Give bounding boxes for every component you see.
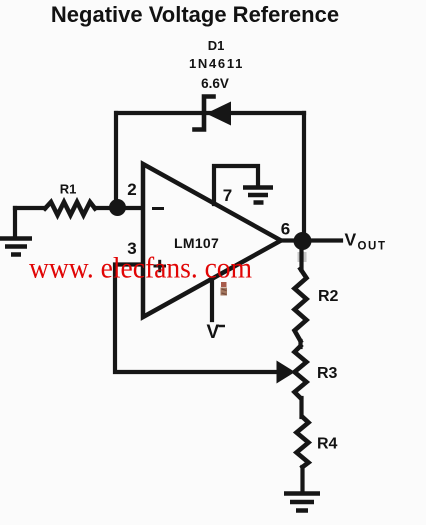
svg-text:OUT: OUT bbox=[358, 241, 387, 253]
label VOUT bbox=[345, 230, 387, 253]
resistor R1 bbox=[45, 202, 95, 215]
watermark artifact glyph bbox=[221, 282, 228, 296]
wire left vertical (top wire to inverting node) bbox=[114, 113, 118, 207]
svg-text:V: V bbox=[345, 230, 357, 250]
wire pin 3 to feedback tap bbox=[115, 265, 278, 373]
wire R1 to node bbox=[95, 206, 117, 210]
label V- bbox=[207, 322, 226, 343]
wire top feedback horizontal bbox=[117, 111, 305, 115]
ground (bottom, below R4) bbox=[284, 494, 320, 511]
wire left of R1 bbox=[15, 206, 45, 210]
wire V- supply pin bbox=[210, 279, 214, 320]
svg-text:6: 6 bbox=[281, 220, 290, 239]
diode D1 anode triangle bbox=[206, 102, 231, 126]
svg-text:2: 2 bbox=[127, 180, 136, 199]
svg-text:R3: R3 bbox=[317, 365, 338, 382]
wire output to VOUT bbox=[281, 238, 341, 242]
wire drop to left ground bbox=[13, 208, 17, 237]
svg-text:Negative Voltage Reference: Negative Voltage Reference bbox=[51, 2, 339, 27]
svg-text:V: V bbox=[207, 322, 220, 343]
potentiometer R3 body bbox=[295, 346, 307, 398]
svg-text:www. elecfans. com: www. elecfans. com bbox=[29, 252, 252, 285]
svg-text:LM107: LM107 bbox=[174, 235, 219, 251]
node B (output junction) bbox=[294, 232, 312, 250]
svg-text:R4: R4 bbox=[317, 436, 338, 453]
wire R3 to R4 bbox=[299, 398, 303, 417]
op-amp non-inverting input plus sign bbox=[154, 260, 167, 273]
wire node B to R2 bbox=[299, 241, 303, 270]
svg-text:6.6V: 6.6V bbox=[201, 76, 229, 91]
svg-text:R1: R1 bbox=[60, 182, 77, 197]
wire pin 7 to ground bbox=[214, 166, 258, 204]
op-amp inverting input minus sign bbox=[152, 207, 164, 210]
svg-text:7: 7 bbox=[223, 186, 232, 205]
wire R2 to R3 bbox=[298, 341, 302, 347]
op-amp U1 triangle bbox=[143, 164, 281, 317]
diode D1 zener cathode bar bbox=[195, 97, 214, 130]
ground (pin 7) bbox=[243, 188, 273, 203]
svg-text:D1: D1 bbox=[208, 38, 225, 53]
svg-text:1N4611: 1N4611 bbox=[189, 56, 244, 71]
wire node to pin 2 bbox=[117, 206, 143, 210]
wire R4 to bottom ground bbox=[300, 467, 304, 492]
ground (left, below R1) bbox=[0, 239, 32, 255]
potentiometer R3 wiper arrow bbox=[277, 361, 296, 384]
node A (inverting input junction) bbox=[109, 199, 126, 216]
resistor R4 bbox=[297, 417, 309, 467]
gray scan artifact on wire bbox=[298, 252, 307, 262]
svg-text:R2: R2 bbox=[318, 288, 339, 305]
wire right vertical (top wire to output node) bbox=[302, 113, 306, 241]
resistor R2 bbox=[295, 269, 307, 341]
